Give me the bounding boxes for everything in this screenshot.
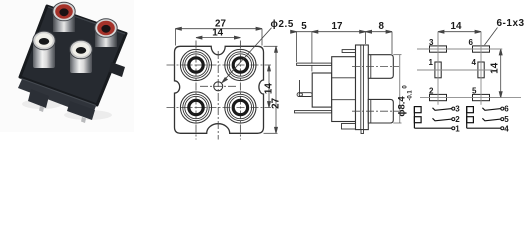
front view jack J2 top-right circles <box>225 49 256 80</box>
side view body internal line upper <box>332 77 356 79</box>
footprint pad 4 <box>478 62 484 78</box>
svg-text:17: 17 <box>332 21 343 32</box>
svg-text:2: 2 <box>429 87 434 96</box>
svg-text:2: 2 <box>455 115 460 124</box>
svg-text:6: 6 <box>469 38 474 47</box>
footprint pad 5 <box>473 94 490 100</box>
side view dia 8.4 dimension <box>393 55 401 123</box>
side view centerline top barrel <box>352 66 399 68</box>
side view main body <box>332 57 356 122</box>
front view jack J4 bottom-right circles <box>225 92 256 123</box>
footprint pad 3 <box>430 46 447 52</box>
front view center hole <box>214 82 223 91</box>
svg-text:27: 27 <box>270 97 281 108</box>
schematic right contact 5 <box>482 118 503 121</box>
front view dia 2.5 leader line <box>222 28 272 83</box>
svg-text:0: 0 <box>403 85 409 89</box>
front view dimension 27 right <box>264 46 278 133</box>
svg-text:-0.1: -0.1 <box>408 90 414 101</box>
footprint column construction lines <box>438 32 481 105</box>
svg-text:3: 3 <box>455 105 460 114</box>
photo background <box>0 0 134 132</box>
schematic left terminal 1 <box>452 127 455 130</box>
photo body bottom edge highlight <box>21 79 96 106</box>
front view jack J1 top-left circles <box>180 49 211 80</box>
side view dia 8.4 tolerance label <box>403 85 414 101</box>
footprint pad 2 <box>430 94 447 100</box>
footprint dimension 14 right <box>490 49 503 98</box>
side view pin 1 top <box>297 63 332 65</box>
svg-text:14: 14 <box>451 21 462 32</box>
svg-text:4: 4 <box>504 124 509 133</box>
svg-text:ϕ2.5: ϕ2.5 <box>271 19 294 30</box>
svg-text:ϕ8.4: ϕ8.4 <box>397 96 408 117</box>
side view flange plate <box>356 45 369 130</box>
svg-text:5: 5 <box>301 21 307 32</box>
svg-text:6-1x3: 6-1x3 <box>497 18 525 29</box>
schematic left contact 2 <box>433 118 455 121</box>
photo jack top-left (red) <box>53 2 75 32</box>
side view barrel top <box>368 55 393 79</box>
svg-text:3: 3 <box>429 38 434 47</box>
side view barrel bottom <box>368 99 393 123</box>
svg-text:14: 14 <box>263 83 274 94</box>
photo shadow <box>22 99 112 120</box>
side view body internal line lower <box>332 99 356 101</box>
front view dimension 27 top <box>175 27 262 45</box>
side view bottom foot <box>342 124 356 130</box>
svg-text:14: 14 <box>212 28 223 39</box>
schematic right terminal 4 <box>501 127 504 130</box>
schematic jack symbol left <box>414 107 452 129</box>
svg-text:4: 4 <box>472 58 477 67</box>
side view top tab <box>342 50 355 53</box>
photo jack bottom-left (white) <box>33 31 55 68</box>
photo body bottom skirt <box>18 79 96 116</box>
side view flange inner line <box>360 45 362 130</box>
svg-text:8: 8 <box>378 21 384 32</box>
side view eyelet lug <box>297 80 312 97</box>
footprint pad 1 <box>435 62 441 78</box>
front view dimension 14 right <box>268 65 271 108</box>
photo body mounting tabs <box>28 62 125 123</box>
photo jack top-right (red) <box>95 19 117 47</box>
footprint dimension 14 top <box>438 30 481 45</box>
front view jack J3 bottom-left circles <box>180 92 211 123</box>
photo body top edge highlight <box>48 7 125 34</box>
schematic left contact 3 <box>433 107 455 110</box>
photo jack bottom-right (white) <box>70 40 92 73</box>
schematic jack symbol right <box>467 107 501 129</box>
photo connector body <box>20 6 126 105</box>
footprint pad 6 <box>473 46 490 52</box>
svg-text:14: 14 <box>489 62 500 73</box>
footprint 6-1x3 leader <box>485 28 498 46</box>
side view flange peg <box>361 130 364 134</box>
side view flange inner line 2 <box>362 45 364 130</box>
front view centerlines <box>167 41 272 140</box>
side view dimension line 5 17 8 <box>291 30 392 71</box>
svg-text:1: 1 <box>429 58 434 67</box>
footprint row construction lines <box>417 49 521 98</box>
side view back section <box>312 73 332 107</box>
svg-text:5: 5 <box>472 87 477 96</box>
front view body outline <box>175 46 264 133</box>
front view dimension 14 top <box>196 36 240 39</box>
svg-text:6: 6 <box>504 105 509 114</box>
side view pin 2 bottom <box>295 111 332 113</box>
svg-text:1: 1 <box>455 124 460 133</box>
svg-text:5: 5 <box>504 115 509 124</box>
side view centerline bottom barrel <box>352 110 399 112</box>
schematic right contact 6 <box>482 107 503 110</box>
